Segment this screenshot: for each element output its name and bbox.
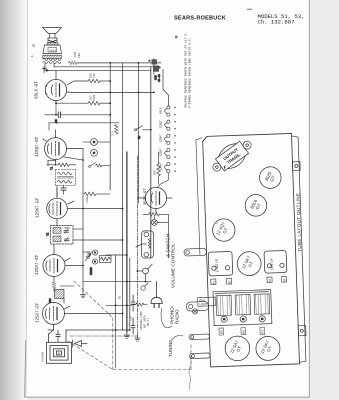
phono shaft — [186, 301, 208, 311]
wire row 255 — [83, 252, 127, 255]
1st IF can — [264, 250, 287, 273]
svg-text:R5: R5 — [220, 330, 224, 334]
wire rail 2 — [54, 64, 158, 67]
wire filament feed — [163, 70, 168, 106]
svg-text:+: + — [159, 65, 161, 69]
tuning gang assembly — [213, 290, 272, 326]
vertical bus x83 — [82, 149, 84, 292]
2nd IF can — [208, 251, 233, 276]
chassis right lip — [292, 136, 306, 363]
svg-text:R7: R7 — [261, 329, 265, 333]
capacitor C2 loop — [56, 330, 60, 342]
capacitor C14 — [131, 295, 135, 311]
label E — [31, 55, 34, 57]
speaker label 1021 — [49, 50, 56, 53]
svg-text:3.3: 3.3 — [112, 131, 115, 136]
label TUNING — [168, 339, 173, 357]
loop antenna L1 — [47, 330, 72, 363]
svg-text:50L6-GT: 50L6-GT — [36, 81, 40, 99]
resistor R18 — [69, 61, 77, 64]
page mark bottom center — [189, 358, 191, 390]
label C16 — [130, 316, 133, 321]
dashed gang link 5 — [190, 344, 192, 370]
switch pole SW1b — [141, 283, 148, 290]
svg-text:ON 51: ON 51 — [147, 318, 150, 326]
foot tab upper — [292, 162, 300, 171]
IF transformer T1 — [47, 163, 76, 185]
wire B+ rail top — [77, 62, 161, 64]
dashed gang link 4 — [113, 369, 191, 371]
2nd IF pads — [211, 278, 232, 284]
tube 12SQ7 GT layout — [212, 218, 235, 241]
tube V1 12SA7-GT — [43, 244, 83, 282]
svg-text:50L6: 50L6 — [160, 107, 163, 114]
resistor R2 — [52, 282, 56, 291]
wire row 330 — [66, 329, 130, 331]
wire T2 right — [73, 229, 123, 240]
svg-text:180: 180 — [78, 53, 81, 58]
dashed gang link 3 — [68, 341, 112, 369]
resistor R6 — [84, 192, 110, 203]
svg-text:.05: .05 — [55, 119, 58, 124]
wire cathode drop — [55, 103, 57, 115]
svg-text:12SQ7-GT: 12SQ7-GT — [36, 136, 40, 157]
svg-text:P-TRANS READINGS TAKEN LINE VO: P-TRANS READINGS TAKEN LINE VOLTS A.C. — [188, 37, 192, 108]
svg-text:470K: 470K — [93, 94, 96, 101]
label B5 — [33, 43, 36, 47]
capacitor C4 — [57, 186, 66, 198]
svg-text:T2: T2 — [47, 232, 50, 236]
bus x129 — [129, 258, 131, 330]
dashed gang link 1 — [74, 281, 113, 318]
ground symbol 1 — [124, 332, 129, 338]
junction dots — [55, 62, 155, 331]
volume shaft — [184, 248, 207, 256]
phono jack J2 — [90, 250, 111, 275]
note: voltage readings vertical text — [184, 32, 192, 108]
tube 12SK7 GT mid layout — [237, 251, 262, 276]
wire screen row — [67, 81, 110, 85]
vertical bus x138 — [137, 63, 139, 203]
dashed gang link 2 — [112, 318, 114, 370]
svg-text:470K: 470K — [86, 196, 89, 203]
resistor R12 — [112, 125, 119, 137]
tube 50L6 GT layout — [245, 194, 267, 216]
label 12SK7-GT rf — [37, 302, 41, 323]
tuning shaft — [189, 334, 210, 340]
trimmer C8 — [85, 252, 91, 261]
label PHONO-RADIO — [170, 305, 180, 324]
svg-text:T1: T1 — [51, 166, 54, 170]
svg-text:S: S — [58, 353, 60, 357]
oscillator coil T3 — [49, 290, 64, 304]
speaker LS1 — [43, 28, 62, 54]
label 12SK7-GT — [37, 197, 41, 218]
svg-text:PHONO: PHONO — [90, 267, 93, 275]
vertical bus x151 — [150, 67, 152, 258]
antenna arrow — [73, 340, 88, 347]
svg-text:R15: R15 — [154, 170, 157, 175]
1st IF pads — [267, 277, 287, 283]
tuning shaft lower — [190, 353, 211, 359]
pin number dots — [174, 107, 175, 172]
svg-text:1ST I.F.: 1ST I.F. — [270, 258, 274, 271]
svg-text:12SK7: 12SK7 — [160, 134, 163, 142]
wire plate row — [72, 91, 154, 93]
leader tuning — [172, 336, 183, 341]
electrolytic C15A C15B — [149, 59, 162, 83]
tube 35Z5 GT layout — [259, 166, 281, 188]
vertical bus x122 — [122, 63, 124, 330]
chassis left lip — [196, 138, 206, 255]
title MODELS 51, 53, Ch. 132.887 — [175, 13, 305, 40]
svg-text:40-40: 40-40 — [158, 74, 161, 82]
tube V4 50L6-GT — [45, 71, 72, 101]
svg-text:Ch. 132.887: Ch. 132.887 — [258, 18, 295, 25]
wire row 160 — [48, 157, 83, 166]
dial light box — [192, 297, 216, 314]
filament string heaters — [158, 106, 170, 188]
svg-text:470: 470 — [93, 73, 96, 78]
svg-text:B5: B5 — [33, 43, 36, 47]
svg-text:R18: R18 — [74, 52, 77, 57]
capacitor C16 — [131, 318, 135, 334]
svg-text:05: 05 — [118, 295, 121, 299]
capacitor C22 — [43, 67, 49, 74]
ground bus dash-dot — [136, 156, 138, 336]
switch SW2 — [135, 126, 151, 139]
leader phono — [161, 308, 172, 328]
wire tube5 row — [60, 285, 74, 287]
label R18 1.8K — [74, 52, 81, 58]
label 47 OHM — [140, 311, 150, 330]
label VOLUME CONTROL — [166, 234, 176, 288]
tube V5 12SK7-GT RF — [43, 302, 123, 330]
svg-text:35Z5-GT: 35Z5-GT — [144, 188, 148, 205]
label 50L6-GT — [36, 81, 40, 99]
ground symbol 3 — [135, 336, 140, 341]
resistor R4 — [131, 303, 147, 306]
chassis outline — [203, 133, 300, 366]
resistor R15 ballast — [154, 152, 161, 184]
heavy bus x127 — [126, 152, 128, 332]
page border bottom edge — [25, 340, 310, 397]
vertical bus x110 — [109, 63, 111, 190]
on-off switch SW1 — [137, 265, 152, 282]
wire rail 3 — [45, 64, 151, 71]
svg-text:57A660: 57A660 — [42, 352, 45, 362]
pilot lamp P1 — [151, 214, 168, 258]
resistor R11 — [88, 94, 100, 105]
volume control R8 — [136, 231, 153, 258]
foot tab lower — [298, 326, 306, 336]
svg-text:2 ND I.F.: 2 ND I.F. — [215, 258, 219, 272]
svg-text:12SA7-GT: 12SA7-GT — [36, 254, 40, 275]
page border right edge — [308, 0, 310, 397]
ground bus horizontal — [70, 335, 137, 337]
svg-text:12SA7-GT: 12SA7-GT — [37, 302, 41, 323]
label loop — [42, 352, 45, 362]
svg-text:& SWITCH: & SWITCH — [166, 234, 171, 257]
tube 12SK7 GT bottom layout — [256, 336, 281, 361]
tube V2 12SK7-GT — [47, 188, 83, 226]
wire row 281 — [83, 281, 151, 283]
svg-text:12SK7: 12SK7 — [160, 162, 163, 170]
band switch SW3 — [89, 163, 111, 191]
svg-text:R6: R6 — [242, 330, 246, 334]
label 12SA7-GT — [36, 254, 40, 275]
page border left edge — [26, 0, 28, 397]
phono jack J1 — [83, 139, 110, 157]
IF transformer T2 — [47, 226, 74, 245]
svg-text:+: + — [149, 59, 151, 63]
output transformer layout — [207, 134, 257, 178]
output transformer T4 (hatched winding) — [43, 55, 62, 64]
filament labels — [160, 107, 163, 170]
vertical wire x115 — [115, 255, 117, 368]
wire cathode row — [56, 101, 110, 104]
resistor R14 — [143, 213, 168, 217]
svg-text:SEARS-ROEBUCK: SEARS-ROEBUCK — [174, 15, 226, 21]
label 12SQ7-GT — [36, 136, 40, 157]
capacitor C9 — [45, 112, 110, 124]
svg-text:RADIO: RADIO — [174, 309, 179, 324]
svg-text:1021: 1021 — [49, 50, 56, 53]
trimmer labels R5 R6 R7 — [219, 327, 265, 337]
label 05 — [118, 295, 121, 299]
tube V3 12SQ7-GT — [43, 130, 83, 166]
title SEARS-ROEBUCK — [174, 9, 252, 22]
AC plug P2 — [151, 282, 162, 308]
svg-text:TUNING: TUNING — [168, 339, 173, 357]
svg-text:12SQ7: 12SQ7 — [160, 120, 163, 128]
label TUBE LAYOUT OUTLINE — [295, 193, 302, 252]
wire row 305 — [106, 304, 131, 306]
resistor R10 — [88, 73, 100, 83]
tube 12SA7 GT layout — [225, 336, 250, 361]
svg-text:C16: C16 — [130, 316, 133, 321]
svg-text:12SA7: 12SA7 — [160, 148, 163, 156]
label 35Z5-GT — [144, 188, 148, 205]
wire row 208 — [83, 208, 123, 210]
svg-text:12SK7-GT: 12SK7-GT — [37, 197, 41, 218]
wire grid row — [49, 123, 119, 130]
svg-text:VOLUME CONTROL: VOLUME CONTROL — [171, 243, 176, 288]
tube V6 35Z5-GT — [138, 187, 172, 214]
ground symbol 2 — [81, 292, 86, 298]
